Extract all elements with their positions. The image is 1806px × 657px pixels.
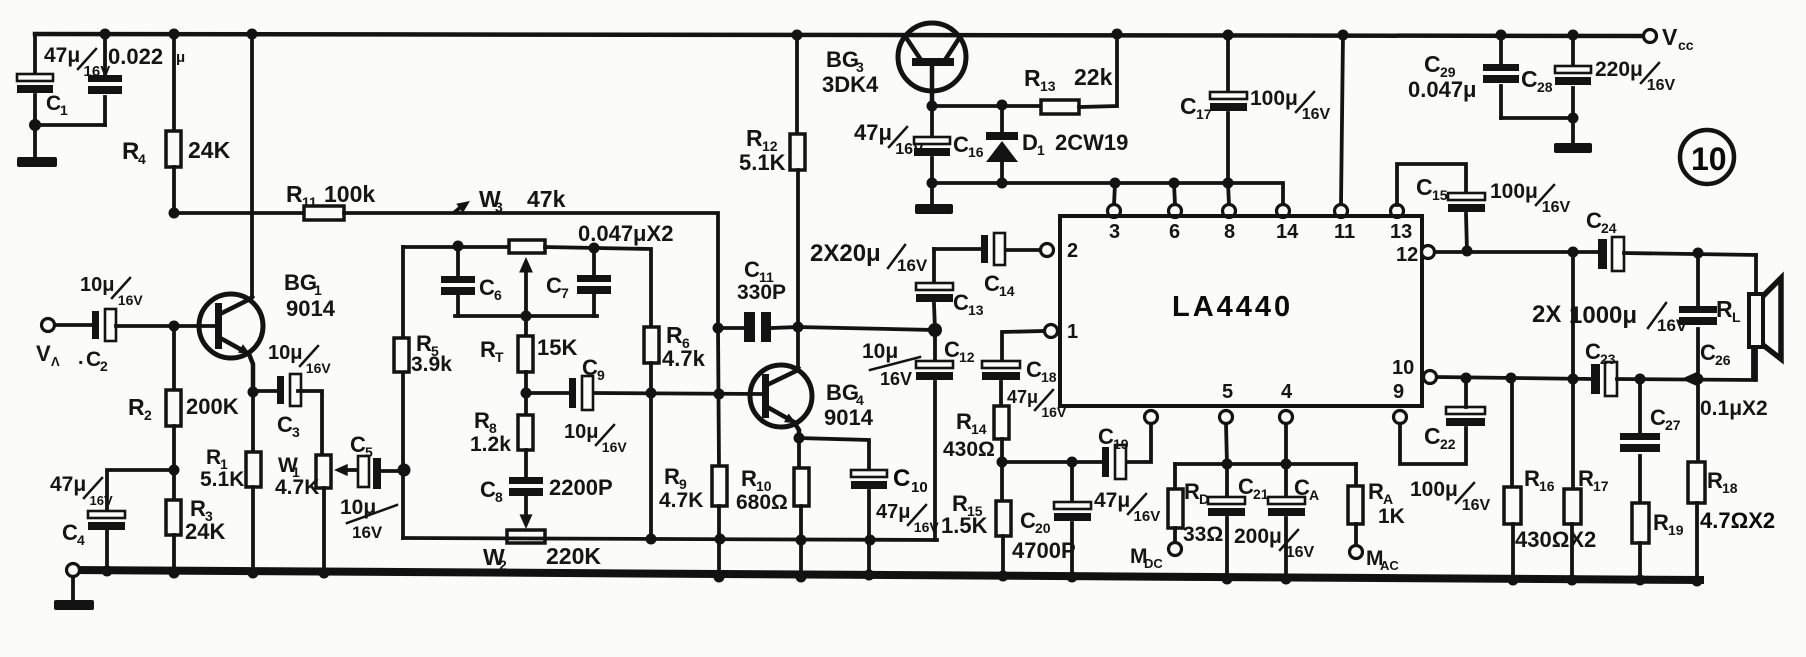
label R4 xyxy=(122,138,146,167)
svg-text:15: 15 xyxy=(1432,187,1448,203)
label C28 xyxy=(1521,66,1553,95)
label 4.7ohmX2 xyxy=(1700,508,1775,533)
wire C7 drop xyxy=(592,248,596,275)
resistor R13 xyxy=(1041,100,1079,114)
label CA xyxy=(1294,475,1319,503)
svg-text:24K: 24K xyxy=(185,519,225,544)
svg-text:0.022: 0.022 xyxy=(108,44,163,69)
capacitor C20 xyxy=(1054,462,1091,521)
wire BG1 collector column xyxy=(250,34,254,297)
wire ground bus xyxy=(73,570,1700,580)
svg-text:C: C xyxy=(1585,339,1601,364)
capacitor C18 xyxy=(982,361,1020,380)
wire R1 to bus xyxy=(251,487,255,574)
capacitor C21 xyxy=(1208,464,1245,516)
svg-text:47μ: 47μ xyxy=(1007,387,1038,407)
junction reg net x932 xyxy=(927,178,938,189)
svg-text:8: 8 xyxy=(1224,221,1235,243)
pin 10 terminal xyxy=(1424,371,1437,384)
svg-text:C: C xyxy=(1586,208,1602,233)
svg-text:C: C xyxy=(1424,423,1441,449)
label 22k xyxy=(1074,64,1113,90)
wire VA to C2 xyxy=(55,323,92,327)
svg-text:V: V xyxy=(36,341,51,366)
junction bus x1003 xyxy=(998,571,1009,582)
svg-text:L: L xyxy=(1732,309,1741,325)
label Vcc xyxy=(1662,24,1694,53)
junction R14 R15 node xyxy=(997,457,1008,468)
wire Vcc top rail xyxy=(35,34,1650,36)
resistor R14 xyxy=(994,406,1009,439)
wire R13 to rail xyxy=(1079,34,1117,107)
svg-text:16V: 16V xyxy=(880,369,912,389)
label 1K xyxy=(1378,505,1405,528)
svg-text:2200P: 2200P xyxy=(549,475,613,500)
svg-text:13: 13 xyxy=(968,302,984,318)
svg-text:680Ω: 680Ω xyxy=(736,491,788,514)
wire C12 bottom hook xyxy=(933,382,937,540)
junction base wire R6col xyxy=(646,388,657,399)
svg-text:R: R xyxy=(1368,479,1384,504)
junction box bottom R6col xyxy=(646,534,657,545)
svg-text:5: 5 xyxy=(365,444,373,460)
wire C9 to BG4 base xyxy=(594,393,763,394)
junction bus x1227 xyxy=(1222,574,1233,585)
wire R10 to bus xyxy=(799,506,803,578)
svg-text:R: R xyxy=(286,181,303,207)
label D1 xyxy=(1022,130,1045,158)
label C26 xyxy=(1700,340,1731,368)
junction pin10 x1640 xyxy=(1635,374,1646,385)
pin label 6 xyxy=(1169,221,1180,243)
arrow W2 wiper xyxy=(520,514,533,529)
pin label 5 xyxy=(1222,381,1233,403)
label 4.7K R9 xyxy=(659,489,703,512)
capacitor C2 xyxy=(92,309,116,341)
svg-text:C: C xyxy=(1026,357,1042,382)
pin 6 terminal xyxy=(1169,205,1182,218)
svg-text:C: C xyxy=(1238,474,1254,499)
svg-text:16V: 16V xyxy=(306,360,332,376)
svg-text:27: 27 xyxy=(1665,417,1681,433)
svg-text:0.1μX2: 0.1μX2 xyxy=(1700,397,1768,420)
svg-text:10: 10 xyxy=(1392,357,1414,379)
svg-text:430Ω: 430Ω xyxy=(943,438,995,461)
svg-text:200K: 200K xyxy=(186,394,239,419)
svg-text:C: C xyxy=(1416,174,1433,200)
svg-text:16V: 16V xyxy=(1302,106,1331,123)
capacitor C24 xyxy=(1598,237,1624,271)
svg-text:9: 9 xyxy=(597,367,605,383)
pin 9 terminal xyxy=(1394,411,1407,424)
label 220K xyxy=(546,543,601,569)
pin label 4 xyxy=(1281,381,1293,403)
svg-text:47μ: 47μ xyxy=(854,120,892,145)
svg-text:C: C xyxy=(1098,424,1114,449)
label 9014 BG4 xyxy=(824,405,874,430)
resistor R17 xyxy=(1564,489,1581,524)
svg-text:10μ: 10μ xyxy=(268,342,302,364)
wire R15 to bus xyxy=(1001,536,1005,577)
svg-text:C: C xyxy=(953,132,969,157)
terminal MAC xyxy=(1350,546,1363,559)
svg-text:13: 13 xyxy=(1040,78,1056,94)
svg-text:8: 8 xyxy=(495,489,503,505)
capacitor C11 xyxy=(744,312,771,342)
pin 2 terminal xyxy=(1041,244,1054,257)
wire R2 top xyxy=(172,326,176,390)
svg-text:20: 20 xyxy=(1035,520,1051,536)
wire C18 to R14 xyxy=(999,382,1003,406)
wire pin6 stub xyxy=(1174,183,1175,205)
capacitor C6 xyxy=(441,276,475,295)
svg-text:16V: 16V xyxy=(1462,497,1491,514)
terminal MDC xyxy=(1169,543,1182,556)
svg-text:16V: 16V xyxy=(895,141,924,158)
svg-text:5: 5 xyxy=(1222,381,1233,403)
pin label 9 xyxy=(1393,381,1404,403)
capacitor C19 xyxy=(1102,445,1126,479)
wire C11 branch xyxy=(718,326,744,330)
svg-text:430ΩX2: 430ΩX2 xyxy=(1515,527,1596,552)
junction bus x107 xyxy=(102,566,113,577)
svg-text:220K: 220K xyxy=(546,543,601,569)
label R3 xyxy=(190,496,213,524)
svg-text:10μ: 10μ xyxy=(564,421,598,443)
resistor R8 xyxy=(518,415,533,450)
label 0.022 xyxy=(108,44,163,69)
label 1.5K xyxy=(941,513,988,538)
svg-text:330P: 330P xyxy=(737,281,786,304)
svg-text:AC: AC xyxy=(1380,558,1399,573)
capacitor C14 xyxy=(981,233,1005,265)
label 47u16V C19 xyxy=(1094,489,1160,525)
label 0.047u xyxy=(1408,77,1477,102)
svg-text:10μ: 10μ xyxy=(862,340,898,363)
svg-text:5.1K: 5.1K xyxy=(739,150,786,175)
label 200K xyxy=(186,394,239,419)
svg-text:1000μ: 1000μ xyxy=(1569,302,1637,329)
label 47k xyxy=(527,186,566,212)
potentiometer W3 xyxy=(509,240,545,253)
svg-text:5.1K: 5.1K xyxy=(200,468,244,491)
svg-text:C: C xyxy=(984,271,1000,296)
junction bus x801 xyxy=(796,572,807,583)
svg-text:R: R xyxy=(1524,466,1540,491)
svg-text:2: 2 xyxy=(100,358,108,374)
junction BG3 emitter node xyxy=(927,101,938,112)
arrow W1 wiper xyxy=(334,464,358,476)
svg-text:C: C xyxy=(1294,475,1310,500)
junction pin10 x1511 xyxy=(1506,373,1517,384)
svg-text:33Ω: 33Ω xyxy=(1183,523,1223,546)
svg-text:17: 17 xyxy=(1593,478,1609,494)
wire 2x20 net xyxy=(934,247,981,251)
wire pin11 column xyxy=(1341,35,1343,205)
svg-text:16V: 16V xyxy=(1542,199,1571,216)
label C4 xyxy=(62,520,85,548)
svg-text:R: R xyxy=(1716,296,1733,322)
label R1 xyxy=(206,446,228,472)
svg-text:12: 12 xyxy=(1396,244,1418,266)
ground symbol main xyxy=(54,577,94,610)
svg-text:14: 14 xyxy=(971,421,987,437)
wire C22 top xyxy=(1464,378,1468,407)
junction bus x174 xyxy=(169,568,180,579)
svg-text:24: 24 xyxy=(1601,220,1617,236)
label C11 xyxy=(744,257,774,285)
speaker RL xyxy=(1749,255,1781,380)
resistor R6 xyxy=(644,327,659,363)
wire box left side xyxy=(401,247,405,538)
wire pin10 net xyxy=(1437,377,1591,379)
svg-text:16V: 16V xyxy=(84,63,111,80)
svg-text:13: 13 xyxy=(1390,221,1412,243)
resistor R11 xyxy=(304,206,344,220)
wire C15 to pin12 wire xyxy=(1466,214,1467,251)
svg-text:0.047μ: 0.047μ xyxy=(1408,77,1477,102)
label R17 xyxy=(1578,466,1609,494)
label C17 xyxy=(1180,93,1212,122)
junction pin12 x1698 xyxy=(1693,248,1704,259)
label C16 xyxy=(953,132,984,160)
junction C20 tap xyxy=(1067,457,1078,468)
svg-text:6: 6 xyxy=(1169,221,1180,243)
svg-text:4.7K: 4.7K xyxy=(275,476,319,499)
label C8 xyxy=(480,477,503,505)
svg-text:C: C xyxy=(86,348,101,371)
wire C9 net xyxy=(526,391,569,395)
junction C28 bottom xyxy=(1568,113,1579,124)
pin label 13 xyxy=(1390,221,1412,243)
wire pin7 net xyxy=(1002,460,1102,464)
label 100u16V C15 xyxy=(1490,180,1571,216)
label 0.047uX2 xyxy=(578,221,673,246)
svg-text:19: 19 xyxy=(1668,522,1684,538)
pin label 1 xyxy=(1067,321,1078,343)
label 330P xyxy=(737,281,786,304)
svg-text:22k: 22k xyxy=(1074,64,1113,90)
wire R9 to bus xyxy=(717,506,721,578)
svg-text:μ: μ xyxy=(176,49,185,66)
capacitor C27 xyxy=(1620,433,1660,452)
arrow output node xyxy=(1681,372,1697,386)
svg-text:R: R xyxy=(741,466,757,491)
svg-text:18: 18 xyxy=(1041,369,1057,385)
junction C7 top xyxy=(589,243,600,254)
resistor R10 xyxy=(794,468,809,506)
svg-text:1: 1 xyxy=(1067,321,1078,343)
svg-text:BG: BG xyxy=(284,270,317,295)
svg-text:C: C xyxy=(277,412,293,437)
label C21 xyxy=(1238,474,1269,502)
svg-text:15K: 15K xyxy=(537,335,577,360)
wire C6 bottom xyxy=(456,295,460,316)
wire RA to MAC xyxy=(1354,524,1358,546)
svg-text:2: 2 xyxy=(144,407,152,423)
svg-text:100k: 100k xyxy=(324,181,375,207)
resistor R5 xyxy=(394,338,409,372)
wire collector node to pin1 xyxy=(798,327,935,330)
wire C13 column top xyxy=(932,249,936,283)
pin 12 terminal xyxy=(1422,246,1435,259)
wire R4 column top xyxy=(172,34,176,131)
label 1.2k xyxy=(470,433,511,456)
label 2X20u16V xyxy=(810,240,928,275)
svg-text:R: R xyxy=(128,394,145,420)
pin label 10i xyxy=(1392,357,1414,379)
wire RD branch xyxy=(1173,464,1177,489)
wire R6 to base wire xyxy=(649,363,653,539)
junction emitter node xyxy=(248,387,259,398)
wire C4 to bus xyxy=(105,531,109,572)
svg-text:cc: cc xyxy=(1678,37,1694,53)
potentiometer W2 xyxy=(507,530,545,543)
wire pin4 drop xyxy=(1284,424,1288,464)
junction pin5 node xyxy=(1222,459,1233,470)
wire C3 to W1 xyxy=(298,391,322,455)
label 33ohm xyxy=(1183,523,1223,546)
svg-text:3: 3 xyxy=(495,199,503,215)
junction BG4 emitter node xyxy=(794,433,805,444)
label 15K xyxy=(537,335,577,360)
label R12 xyxy=(746,125,778,154)
svg-text:2: 2 xyxy=(1067,240,1078,262)
svg-text:7: 7 xyxy=(561,285,569,301)
svg-text:C: C xyxy=(62,520,78,545)
svg-text:A: A xyxy=(1309,487,1319,503)
label C5 xyxy=(350,432,373,460)
label MAC xyxy=(1366,547,1399,573)
svg-text:C: C xyxy=(480,477,496,502)
svg-text:C: C xyxy=(1424,51,1441,77)
terminal VA input xyxy=(42,319,55,332)
svg-text:16V: 16V xyxy=(1286,544,1315,561)
wire R16 to bus xyxy=(1511,524,1515,581)
label 47u16V C10 xyxy=(876,501,939,535)
capacitor C22 xyxy=(1446,407,1485,426)
label 24K xyxy=(188,137,231,163)
svg-text:4: 4 xyxy=(1281,381,1293,403)
svg-text:R: R xyxy=(664,464,680,489)
wire pin12 net xyxy=(1435,250,1598,254)
wire emitter to C10 xyxy=(799,438,869,470)
svg-text:16: 16 xyxy=(1539,478,1555,494)
svg-text:22: 22 xyxy=(1440,436,1456,452)
label C19 xyxy=(1098,424,1129,452)
capacitor C16 xyxy=(914,106,950,183)
pin label 2 xyxy=(1067,240,1078,262)
label C6 xyxy=(479,275,502,303)
transistor BG4 xyxy=(750,365,812,438)
svg-text:14: 14 xyxy=(1276,221,1299,243)
wire R19 to bus xyxy=(1638,543,1642,581)
svg-text:R: R xyxy=(206,446,221,469)
wire C21 to bus xyxy=(1225,518,1229,580)
wire C7 bottom xyxy=(592,294,596,316)
label C18 xyxy=(1026,357,1057,385)
junction bus x719 xyxy=(714,572,725,583)
svg-text:BG: BG xyxy=(826,47,859,72)
svg-text:1.5K: 1.5K xyxy=(941,513,988,538)
capacitor C9 xyxy=(569,376,593,410)
page number circle 10 xyxy=(1680,130,1734,184)
wire regulated supply net xyxy=(932,183,1283,205)
wire RA branch xyxy=(1354,464,1358,486)
label 430ohmX2 xyxy=(1515,527,1596,552)
svg-text:18: 18 xyxy=(1722,480,1738,496)
svg-text:3: 3 xyxy=(292,424,300,440)
label R2 xyxy=(128,394,152,423)
pin 14 terminal xyxy=(1277,205,1290,218)
junction reg net x1174 xyxy=(1169,178,1180,189)
label 4.7K W1 xyxy=(275,476,319,499)
svg-text:C: C xyxy=(1650,405,1666,430)
wire R18 to bus xyxy=(1695,503,1699,582)
svg-text:28: 28 xyxy=(1537,79,1553,95)
junction bus x1286 xyxy=(1281,574,1292,585)
junction x174 y470 xyxy=(169,465,180,476)
label C23 xyxy=(1585,339,1616,367)
svg-text:R: R xyxy=(666,322,683,348)
pin 11 terminal xyxy=(1335,205,1348,218)
svg-text:C: C xyxy=(1521,66,1538,92)
resistor R3 xyxy=(166,500,181,535)
op-amp U1 LA4440 box xyxy=(1060,216,1422,406)
wire wiper to RT xyxy=(524,268,528,336)
label 47u16V C18 xyxy=(1007,387,1067,420)
svg-text:1K: 1K xyxy=(1378,505,1405,528)
svg-text:1: 1 xyxy=(60,102,68,118)
svg-text:9014: 9014 xyxy=(286,296,336,321)
wire emitter to R10 xyxy=(797,438,801,468)
wire R16 column xyxy=(1510,378,1514,487)
label BG3 xyxy=(826,47,864,75)
pin 1 terminal xyxy=(1045,325,1058,338)
svg-text:3: 3 xyxy=(1109,221,1120,243)
label 3.9k xyxy=(411,353,452,376)
svg-text:R: R xyxy=(1184,479,1200,504)
label C29 xyxy=(1424,51,1456,80)
label R13 xyxy=(1024,65,1056,94)
capacitor C29 xyxy=(1483,35,1519,118)
label C24 xyxy=(1586,208,1617,236)
resistor RA xyxy=(1348,486,1363,524)
label R19 xyxy=(1653,510,1684,538)
ground below C1 xyxy=(17,119,57,167)
wire W1 to bus xyxy=(322,488,326,574)
resistor R4 xyxy=(166,131,181,167)
junction BG4 collector node xyxy=(793,322,804,333)
label 0.1uX2 xyxy=(1700,397,1768,420)
pin 5 terminal xyxy=(1220,411,1233,424)
wire RD to MDC xyxy=(1173,528,1177,543)
resistor RD xyxy=(1168,489,1183,528)
wire emitter to R1 xyxy=(251,392,255,452)
label 10u16V C9 xyxy=(564,421,627,455)
svg-text:C: C xyxy=(744,257,760,282)
svg-text:T: T xyxy=(495,349,504,365)
svg-text:1.2k: 1.2k xyxy=(470,433,511,456)
pin 3 terminal xyxy=(1108,205,1121,218)
resistor R2 xyxy=(166,390,181,426)
wire emitter to C3 xyxy=(253,389,277,393)
svg-text:C: C xyxy=(46,92,61,115)
junction reg net x1002 xyxy=(997,178,1008,189)
svg-text:16V: 16V xyxy=(1041,404,1067,420)
resistor R1 xyxy=(246,452,261,487)
svg-text:23: 23 xyxy=(1600,351,1616,367)
